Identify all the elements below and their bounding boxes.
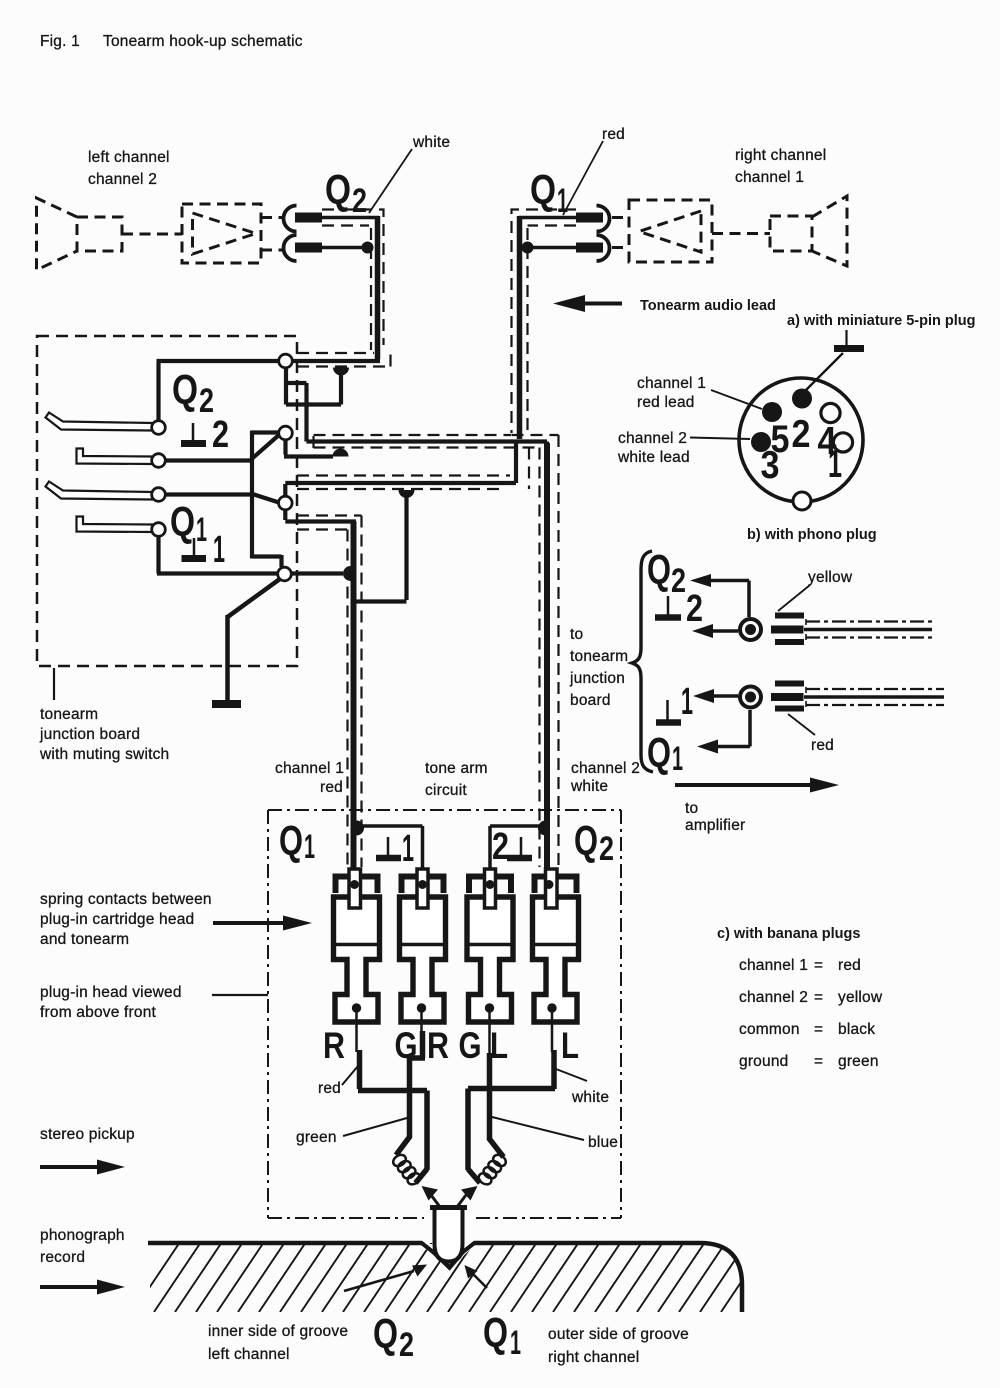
svg-text:amplifier: amplifier (685, 817, 745, 834)
svg-text:Q: Q (483, 1309, 508, 1356)
svg-text:red lead: red lead (637, 394, 695, 411)
svg-text:Fig. 1: Fig. 1 (40, 33, 80, 50)
svg-text:Q: Q (170, 498, 195, 545)
svg-text:plug-in head viewed: plug-in head viewed (40, 984, 182, 1001)
svg-text:outer side of groove: outer side of groove (548, 1326, 689, 1343)
svg-text:b) with phono plug: b) with phono plug (747, 527, 877, 543)
svg-text:white: white (412, 134, 450, 151)
svg-text:1: 1 (196, 511, 207, 549)
svg-text:circuit: circuit (425, 782, 467, 799)
svg-text:1: 1 (402, 828, 414, 870)
svg-text:2: 2 (671, 562, 686, 600)
svg-text:right channel: right channel (735, 147, 826, 164)
svg-text:to: to (570, 626, 583, 643)
svg-text:channel 2: channel 2 (739, 989, 808, 1006)
svg-text:1: 1 (304, 828, 315, 866)
svg-text:white: white (571, 1089, 609, 1106)
svg-text:record: record (40, 1249, 85, 1266)
svg-text:white lead: white lead (617, 449, 690, 466)
svg-text:junction: junction (569, 670, 625, 687)
svg-text:left channel: left channel (208, 1346, 290, 1363)
svg-text:common: common (739, 1021, 800, 1038)
svg-text:=: = (814, 1053, 823, 1070)
svg-text:Q: Q (279, 817, 303, 864)
svg-text:L: L (561, 1025, 579, 1066)
svg-text:ground: ground (739, 1053, 788, 1070)
svg-text:2: 2 (212, 414, 229, 456)
svg-text:Q: Q (647, 729, 671, 776)
svg-text:Q: Q (574, 817, 598, 864)
svg-text:1: 1 (828, 443, 842, 486)
svg-text:1: 1 (672, 740, 683, 778)
svg-text:channel 1: channel 1 (275, 760, 344, 777)
svg-text:white: white (570, 778, 608, 795)
svg-text:R: R (323, 1025, 345, 1066)
svg-text:Q: Q (373, 1310, 398, 1357)
svg-text:plug-in cartridge head: plug-in cartridge head (40, 911, 194, 928)
svg-text:Q: Q (647, 546, 671, 593)
svg-text:red: red (318, 1080, 341, 1097)
svg-text:red: red (838, 957, 861, 974)
svg-text:Q: Q (172, 366, 198, 413)
svg-text:tone arm: tone arm (425, 760, 488, 777)
svg-text:left channel: left channel (88, 149, 170, 166)
svg-text:from above front: from above front (40, 1004, 157, 1021)
svg-text:yellow: yellow (838, 989, 883, 1006)
svg-text:channel 1: channel 1 (735, 169, 804, 186)
svg-text:2: 2 (352, 182, 367, 220)
svg-text:1: 1 (213, 529, 225, 571)
svg-text:=: = (814, 957, 823, 974)
svg-text:Tonearm hook-up schematic: Tonearm hook-up schematic (103, 33, 303, 50)
svg-text:channel 2: channel 2 (88, 171, 157, 188)
svg-text:with muting switch: with muting switch (39, 746, 169, 763)
svg-text:2: 2 (792, 413, 811, 456)
svg-text:stereo pickup: stereo pickup (40, 1126, 135, 1143)
svg-text:black: black (838, 1021, 875, 1038)
svg-text:c) with banana plugs: c) with banana plugs (717, 926, 860, 942)
svg-text:channel 2: channel 2 (618, 430, 687, 447)
svg-text:3: 3 (761, 444, 780, 487)
svg-text:2: 2 (492, 826, 509, 868)
svg-text:right channel: right channel (548, 1349, 639, 1366)
svg-text:a) with miniature 5-pin plug: a) with miniature 5-pin plug (787, 313, 976, 329)
svg-text:spring contacts between: spring contacts between (40, 891, 212, 908)
svg-text:red: red (320, 779, 343, 796)
svg-text:=: = (814, 989, 823, 1006)
svg-text:channel 1: channel 1 (637, 375, 706, 392)
svg-text:green: green (838, 1053, 879, 1070)
svg-text:red: red (811, 737, 834, 754)
svg-text:tonearm: tonearm (570, 648, 628, 665)
svg-text:phonograph: phonograph (40, 1227, 125, 1244)
svg-text:yellow: yellow (808, 569, 853, 586)
svg-text:board: board (570, 692, 611, 709)
svg-text:Q: Q (325, 166, 351, 213)
svg-text:Tonearm audio lead: Tonearm audio lead (640, 298, 776, 314)
svg-text:2: 2 (599, 830, 614, 868)
svg-text:to: to (685, 800, 698, 817)
svg-text:1: 1 (681, 681, 693, 723)
svg-text:channel 1: channel 1 (739, 957, 808, 974)
svg-text:blue: blue (588, 1134, 618, 1151)
svg-text:G: G (459, 1025, 482, 1066)
svg-text:tonearm: tonearm (40, 706, 98, 723)
svg-text:L: L (490, 1025, 508, 1066)
svg-text:R: R (427, 1025, 449, 1066)
svg-text:=: = (814, 1021, 823, 1038)
svg-text:green: green (296, 1129, 337, 1146)
svg-text:Q: Q (530, 166, 556, 213)
svg-text:2: 2 (686, 588, 703, 630)
svg-text:red: red (602, 126, 625, 143)
svg-text:and tonearm: and tonearm (40, 931, 129, 948)
svg-text:inner side of groove: inner side of groove (208, 1323, 348, 1340)
svg-text:channel 2: channel 2 (571, 760, 640, 777)
svg-text:junction board: junction board (39, 726, 140, 743)
svg-text:1: 1 (510, 1324, 521, 1362)
svg-text:2: 2 (399, 1326, 414, 1364)
